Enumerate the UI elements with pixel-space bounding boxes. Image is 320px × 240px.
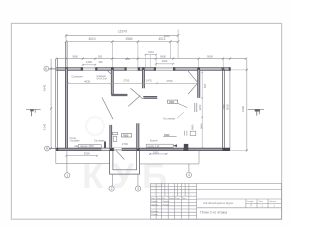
- grid line 3 lower: [137, 174, 139, 186]
- svg-text:1500: 1500: [153, 150, 159, 154]
- interior stub V5: [195, 103, 197, 112]
- svg-text:2700: 2700: [122, 142, 128, 146]
- svg-text:300: 300: [98, 54, 103, 58]
- svg-text:Листов: Листов: [269, 201, 276, 203]
- porch inner: [113, 151, 137, 170]
- right mini table: [245, 199, 247, 208]
- bottom dim 3500 line: [66, 155, 97, 157]
- bottom wall band: [56, 148, 230, 151]
- svg-text:Лист: Лист: [259, 201, 263, 203]
- extension line x223.2: [222, 59, 224, 68]
- grid bubble 2: [109, 186, 114, 191]
- window W2: [156, 67, 173, 71]
- top wall dark junctions: [65, 67, 231, 70]
- grid line 4 lower: [188, 164, 190, 172]
- grid bubble A: [45, 146, 50, 151]
- interior dim row y83: [68, 82, 198, 84]
- door mark top V1: [107, 70, 112, 75]
- window W2 dim ticks: [155, 63, 174, 65]
- right dim connector top: [231, 69, 247, 71]
- interior wall V2: [142, 70, 144, 88]
- svg-text:пандус 1500: пандус 1500: [80, 145, 94, 148]
- big divider: [196, 183, 198, 219]
- svg-text:360: 360: [126, 58, 131, 61]
- interior wall H2: [143, 96, 157, 98]
- WC door leaf 2: [113, 136, 117, 141]
- kitchen dark block: [184, 144, 189, 151]
- room label area lines: [97, 76, 108, 80]
- top wall band: [56, 68, 230, 71]
- boxed label left: [75, 145, 102, 149]
- room label bottom-left: [70, 138, 81, 142]
- door swing V1: [102, 98, 113, 120]
- svg-text:3400: 3400: [72, 54, 78, 58]
- window W2 dim line: [156, 63, 173, 65]
- dimension row1 ticks: [65, 34, 179, 36]
- small dim 1010 above W2: [146, 54, 157, 56]
- left dim ticks: [50, 68, 52, 150]
- svg-text:столовая: столовая: [70, 140, 81, 142]
- svg-text:3: 3: [137, 187, 139, 191]
- svg-text:Гостиная: Гостиная: [94, 140, 105, 143]
- title block texts: [151, 197, 276, 216]
- interior wall V1 upper: [111, 70, 113, 95]
- right outer line x229.9: [229, 68, 231, 150]
- label LV1: [168, 100, 188, 108]
- svg-text:1470: 1470: [146, 79, 152, 83]
- grid line B horizontal: [49, 68, 58, 70]
- interior dim row ticks: [67, 83, 198, 85]
- bottom dim 1500 line: [150, 153, 167, 155]
- svg-text:3940: 3940: [43, 84, 47, 91]
- small dim extension lines: [146, 55, 157, 68]
- window W1 dim ticks: [82, 64, 96, 66]
- frame border: [11, 23, 281, 219]
- level mark left: [26, 109, 41, 116]
- svg-text:Б: Б: [45, 67, 47, 71]
- svg-text:5000: 5000: [207, 54, 213, 58]
- dimension row2 ticks: [65, 41, 179, 43]
- svg-text:4190: 4190: [241, 105, 245, 112]
- grid line 1 lower: [66, 151, 68, 173]
- svg-text:5400: 5400: [160, 54, 166, 58]
- dimension row1 line 11970: [66, 34, 178, 36]
- grid line A horizontal: [49, 147, 56, 149]
- left terrace line: [56, 163, 110, 165]
- interior wall V3: [137, 123, 139, 148]
- svg-text:1: 1: [66, 174, 68, 178]
- svg-text:4: 4: [188, 173, 190, 177]
- svg-text:2700: 2700: [166, 79, 172, 83]
- svg-text:300: 300: [99, 61, 104, 64]
- window W1: [83, 67, 95, 71]
- svg-text:Провер.: Провер.: [151, 204, 159, 206]
- svg-text:Разраб.: Разраб.: [151, 201, 159, 203]
- svg-text:уклон 1:10: уклон 1:10: [148, 145, 160, 148]
- svg-text:4010: 4010: [88, 37, 95, 41]
- right dim ticks: [246, 69, 248, 151]
- svg-text:Стадия: Стадия: [247, 201, 254, 203]
- porch door swing: [116, 150, 125, 159]
- svg-text:Кухня: Кухня: [150, 139, 158, 143]
- svg-text:3500: 3500: [84, 152, 91, 156]
- svg-text:Гостиная: Гостиная: [163, 117, 175, 121]
- svg-text:500: 500: [203, 83, 207, 88]
- interior wall H1: [111, 94, 127, 96]
- right wall double line: [223, 69, 225, 150]
- extension line x198.5: [198, 59, 200, 68]
- svg-text:2700: 2700: [123, 79, 129, 83]
- svg-text:ЛВ1: ЛВ1: [169, 100, 175, 104]
- left dim line: [50, 59, 52, 149]
- right room vertical dim ticks: [201, 72, 203, 149]
- dimension row2 line: [66, 41, 178, 43]
- dimension row3 ticks: [55, 58, 246, 60]
- grid line 2 lower: [111, 174, 113, 186]
- right dim line x246.8: [246, 59, 248, 151]
- grid bubble 4: [186, 172, 191, 177]
- extension line x170.4: [169, 41, 171, 59]
- svg-text:2: 2: [111, 187, 113, 191]
- label LV2: [121, 134, 131, 138]
- window W1b: [127, 67, 138, 71]
- vent rect: [190, 131, 196, 135]
- small dim 1010 ticks: [145, 54, 157, 56]
- svg-text:8030: 8030: [226, 104, 230, 110]
- name column dividers: [197, 189, 282, 191]
- right terrace right edge: [198, 151, 200, 164]
- grid bubble 3: [136, 186, 141, 191]
- svg-text:1460: 1460: [199, 123, 203, 129]
- title block outer: [151, 183, 282, 219]
- svg-text:11970: 11970: [118, 30, 127, 34]
- svg-text:1400: 1400: [162, 59, 168, 63]
- door swing hall X2: [130, 88, 142, 99]
- svg-text:КЖ Жилой дом из бруса: КЖ Жилой дом из бруса: [204, 201, 234, 205]
- boxed label right: [146, 144, 177, 148]
- door swing right room: [188, 71, 198, 83]
- interior wall V4 right room: [198, 70, 200, 98]
- svg-text:1010: 1010: [148, 50, 154, 54]
- svg-text:Петров: Петров: [162, 204, 169, 206]
- svg-text:1012: 1012: [163, 34, 170, 38]
- label LV3 underline: [163, 133, 176, 137]
- door swing right room second: [188, 83, 198, 94]
- WC door leaf 1: [113, 132, 118, 134]
- svg-text:1460: 1460: [191, 124, 195, 130]
- svg-text:ЛВ2: ЛВ2: [123, 134, 129, 138]
- right room vertical dim: [201, 72, 203, 148]
- right terrace line: [140, 163, 199, 165]
- dimension row3 line: [56, 58, 245, 60]
- bottom wall dark junctions: [56, 148, 230, 151]
- svg-text:Подп.: Подп.: [175, 198, 181, 200]
- window W1 dim line: [83, 64, 96, 66]
- svg-text:Иванов: Иванов: [162, 201, 169, 203]
- grid bubble 1: [65, 173, 70, 178]
- left terrace left edge: [55, 151, 57, 164]
- left part column lines: [155, 183, 157, 219]
- extension line x178.1: [177, 29, 179, 58]
- grid bubble B: [44, 66, 49, 71]
- svg-text:1400: 1400: [86, 60, 92, 64]
- watermark: [82, 117, 175, 196]
- svg-text:ЛВ2: ЛВ2: [164, 133, 170, 137]
- vent double lines: [185, 131, 187, 136]
- svg-text:КУБ: КУБ: [82, 157, 175, 196]
- svg-text:План 2-го этажа: План 2-го этажа: [200, 211, 227, 215]
- left wall double line: [56, 59, 58, 151]
- svg-text:4030: 4030: [84, 79, 90, 83]
- svg-text:Утверд.: Утверд.: [151, 214, 159, 216]
- svg-text:Лист: Лист: [162, 198, 166, 200]
- svg-text:2200: 2200: [198, 104, 202, 110]
- porch outer: [110, 151, 140, 175]
- svg-text:S=14.3 м²: S=14.3 м²: [97, 78, 108, 81]
- svg-text:2580: 2580: [125, 37, 132, 41]
- living leader: [177, 112, 184, 118]
- left part row lines: [151, 186, 197, 188]
- bottom dim 3500 ticks: [65, 155, 98, 157]
- svg-text:3140: 3140: [43, 123, 47, 130]
- extension line grid1 top: [66, 34, 68, 69]
- bottom dim 1500 ticks: [149, 153, 167, 155]
- right dim connector bottom: [230, 149, 247, 151]
- extension line x112: [111, 41, 113, 68]
- extension line x137.9: [137, 41, 139, 68]
- elevation mark right: [248, 109, 264, 115]
- svg-text:Изм: Изм: [151, 198, 155, 200]
- wall stub left of porch: [104, 142, 106, 149]
- svg-text:Н.контр.: Н.контр.: [151, 211, 159, 213]
- svg-text:Спальня: Спальня: [72, 74, 84, 78]
- interior wall V1 lower: [110, 125, 112, 148]
- door swing hall X1: [128, 96, 140, 107]
- grid1 wall: [65, 69, 67, 149]
